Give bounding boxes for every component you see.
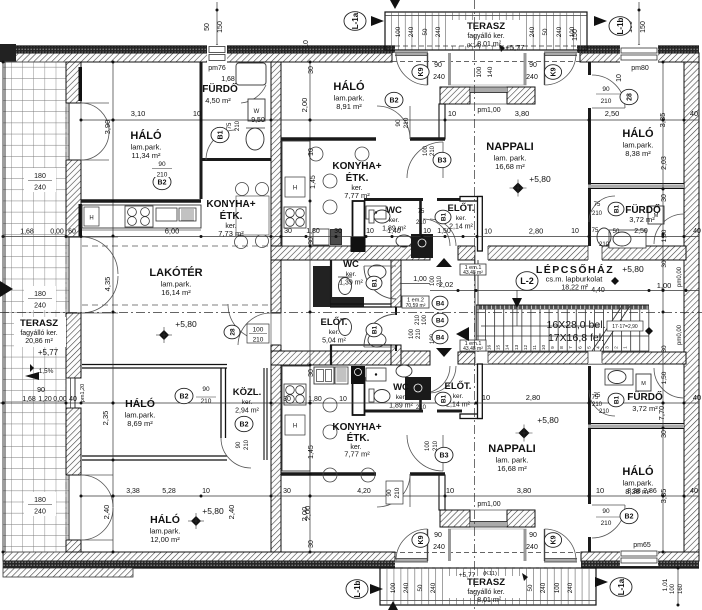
svg-text:90: 90 [434,532,442,539]
svg-text:240: 240 [433,74,445,81]
svg-text:+5,80: +5,80 [202,506,224,516]
svg-text:K9: K9 [418,535,425,544]
svg-text:8,38 m²: 8,38 m² [625,149,651,158]
svg-text:11: 11 [532,345,538,350]
svg-text:L-2: L-2 [520,276,534,286]
svg-text:FÜRDŐ: FÜRDŐ [627,390,663,403]
svg-text:140: 140 [487,66,494,77]
svg-text:43,48 m²: 43,48 m² [463,270,483,276]
svg-text:4,50 m²: 4,50 m² [205,96,231,105]
svg-text:16: 16 [487,345,493,351]
svg-text:WC: WC [393,382,409,393]
svg-text:100: 100 [670,583,676,594]
svg-text:10: 10 [446,486,454,495]
svg-text:NAPPALI: NAPPALI [488,443,535,455]
svg-text:pm1,00: pm1,00 [477,107,500,114]
svg-text:1,50: 1,50 [661,229,668,242]
svg-text:B2: B2 [625,514,634,521]
svg-text:pm1,00: pm1,00 [477,501,500,508]
svg-text:2: 2 [614,346,620,349]
svg-text:ker.: ker. [389,217,400,224]
svg-text:240: 240 [34,303,46,310]
svg-text:50: 50 [417,584,424,591]
svg-text:TERASZ: TERASZ [467,21,505,32]
svg-text:ÉTK.: ÉTK. [346,171,369,184]
svg-text:M: M [641,381,646,387]
svg-text:HÁLÓ: HÁLÓ [130,129,162,142]
svg-text:3,10: 3,10 [131,109,146,118]
svg-text:75: 75 [592,228,599,234]
svg-text:210: 210 [416,405,427,411]
svg-text:B1: B1 [218,130,225,139]
svg-text:8: 8 [559,346,565,349]
svg-text:4,35: 4,35 [103,277,112,292]
svg-text:ker.: ker. [453,393,464,400]
svg-text:B2: B2 [158,180,167,187]
svg-text:8,69 m²: 8,69 m² [127,419,153,428]
svg-text:2,00: 2,00 [300,507,309,522]
svg-text:10: 10 [571,228,579,235]
svg-text:B2: B2 [180,394,189,401]
svg-text:100: 100 [476,66,483,77]
svg-text:1,5%: 1,5% [39,368,54,375]
svg-text:8,91 m²: 8,91 m² [336,102,362,111]
svg-text:10: 10 [303,40,310,48]
svg-text:50: 50 [542,28,549,35]
svg-text:210: 210 [433,440,439,451]
svg-text:pm0,00: pm0,00 [677,324,683,345]
svg-text:1: 1 [623,346,629,349]
svg-text:B4: B4 [436,300,445,307]
svg-text:40: 40 [693,228,701,235]
svg-text:B4: B4 [436,334,445,341]
svg-text:28: 28 [627,93,634,101]
svg-text:2,02: 2,02 [439,280,454,289]
svg-text:0,00: 0,00 [53,396,67,403]
svg-text:100: 100 [409,328,415,339]
svg-text:2,40: 2,40 [227,505,236,520]
svg-text:60: 60 [68,229,76,236]
svg-text:1,68: 1,68 [22,396,36,403]
svg-text:2,00: 2,00 [300,98,309,113]
svg-text:2,94 m²: 2,94 m² [235,408,259,415]
svg-text:210: 210 [157,172,168,179]
svg-text:210: 210 [235,120,241,131]
svg-text:75: 75 [418,209,425,215]
svg-text:210: 210 [244,439,250,450]
svg-text:240: 240 [526,74,538,81]
svg-text:+5,77: +5,77 [38,348,59,357]
svg-text:70,59 m²: 70,59 m² [406,303,426,309]
svg-text:1,68: 1,68 [221,76,235,83]
svg-text:10: 10 [482,393,490,402]
svg-text:15: 15 [496,345,502,351]
svg-text:240: 240 [526,544,538,551]
svg-text:240: 240 [430,582,437,593]
svg-text:NAPPALI: NAPPALI [486,141,533,153]
svg-text:90: 90 [529,62,537,69]
svg-text:12: 12 [523,345,529,351]
svg-text:90: 90 [395,119,402,127]
svg-text:+5,80: +5,80 [622,264,644,274]
svg-text:+5,80: +5,80 [529,174,551,184]
svg-text:160: 160 [678,583,684,594]
svg-text:75: 75 [227,122,233,129]
svg-text:40: 40 [690,486,698,495]
svg-text:210: 210 [430,145,436,156]
svg-text:30: 30 [283,396,291,403]
svg-text:30: 30 [661,430,668,438]
svg-text:4,20: 4,20 [357,488,371,495]
svg-text:FÜRDŐ: FÜRDŐ [202,82,238,95]
svg-text:100: 100 [422,314,428,325]
svg-text:WC: WC [386,205,402,216]
svg-text:2,40: 2,40 [102,505,111,520]
svg-text:1,01: 1,01 [662,578,669,591]
svg-text:6: 6 [577,346,583,349]
svg-text:40: 40 [690,109,698,118]
svg-text:B3: B3 [440,453,449,460]
svg-text:+5,77: +5,77 [506,43,525,52]
svg-text:L-1a: L-1a [617,578,626,595]
svg-text:ELŐT.: ELŐT. [445,380,472,392]
svg-text:pm0,00: pm0,00 [677,266,683,287]
svg-text:2,80: 2,80 [526,393,541,402]
svg-text:B1: B1 [371,325,378,334]
svg-text:1,45: 1,45 [308,445,315,459]
svg-text:210: 210 [592,211,603,217]
svg-text:30: 30 [284,228,292,235]
svg-text:3,80: 3,80 [515,109,530,118]
svg-text:10: 10 [616,74,623,82]
svg-text:90: 90 [236,441,242,448]
svg-text:KONYHA+: KONYHA+ [332,161,381,172]
svg-text:5,28: 5,28 [162,488,176,495]
svg-text:pm65: pm65 [633,542,651,549]
svg-text:ker.: ker. [242,399,253,406]
svg-text:ker.: ker. [396,394,407,401]
svg-text:(K11): (K11) [483,571,497,577]
svg-text:WC: WC [343,259,359,270]
svg-text:LAKÓTÉR: LAKÓTÉR [149,266,202,279]
svg-text:ÉTK.: ÉTK. [220,209,243,222]
svg-text:2,14 m²: 2,14 m² [449,224,473,231]
svg-text:180: 180 [34,497,46,504]
svg-text:12,00 m²: 12,00 m² [150,535,180,544]
svg-text:3,72 m²: 3,72 m² [632,404,658,413]
svg-text:30: 30 [308,369,315,377]
svg-text:H: H [293,424,297,430]
svg-text:3,80: 3,80 [517,486,532,495]
svg-text:40: 40 [69,396,77,403]
svg-text:ker.: ker. [346,271,357,278]
svg-text:2,03: 2,03 [661,156,668,170]
svg-text:90: 90 [158,161,166,168]
svg-text:B3: B3 [438,158,447,165]
svg-text:10: 10 [339,396,347,403]
svg-text:B4: B4 [436,317,445,324]
svg-text:1,45: 1,45 [310,175,317,189]
svg-text:B2: B2 [240,422,249,429]
svg-text:HÁLÓ: HÁLÓ [622,465,654,478]
svg-text:240: 240 [556,26,563,37]
svg-text:pm76: pm76 [208,65,226,72]
svg-text:210: 210 [592,402,603,408]
svg-text:90: 90 [37,387,45,394]
svg-text:ÉTK.: ÉTK. [347,431,370,444]
svg-text:cs.m. lapburkolat: cs.m. lapburkolat [546,275,604,284]
svg-text:30: 30 [661,260,668,268]
svg-text:17·17=2,90: 17·17=2,90 [612,324,638,330]
svg-text:150: 150 [640,21,647,33]
svg-text:pm80: pm80 [631,65,649,72]
svg-text:7,73 m²: 7,73 m² [218,229,244,238]
svg-text:100: 100 [554,582,561,593]
svg-text:1,20: 1,20 [38,396,52,403]
svg-text:90: 90 [202,386,210,393]
svg-text:10: 10 [541,345,547,351]
svg-text:+5,77: +5,77 [459,572,476,579]
svg-text:100: 100 [253,327,264,334]
svg-text:3,72 m²: 3,72 m² [629,215,655,224]
svg-text:H: H [293,186,297,192]
svg-text:30: 30 [308,237,315,245]
svg-text:B2: B2 [390,98,399,105]
svg-text:210: 210 [416,220,427,226]
svg-text:B1: B1 [613,395,620,404]
svg-text:30: 30 [661,345,668,353]
svg-text:10: 10 [448,109,456,118]
svg-text:pm1,20: pm1,20 [80,384,86,402]
svg-text:100: 100 [430,275,436,286]
svg-text:KONYHA+: KONYHA+ [206,199,255,210]
svg-text:B1: B1 [371,278,378,287]
svg-text:210: 210 [201,398,212,405]
svg-text:100: 100 [423,145,429,156]
svg-text:L-1b: L-1b [616,17,625,34]
svg-text:8,38 m²: 8,38 m² [625,487,651,496]
svg-text:TERASZ: TERASZ [20,318,58,329]
svg-text:150: 150 [572,29,579,41]
svg-text:K9: K9 [551,67,558,76]
svg-text:43,48 m²: 43,48 m² [463,346,483,352]
svg-text:240: 240 [34,185,46,192]
svg-text:210: 210 [601,520,612,527]
svg-text:1,89 m²: 1,89 m² [382,226,406,233]
svg-text:10: 10 [202,488,210,495]
svg-text:4: 4 [595,346,601,349]
svg-text:K9: K9 [418,67,425,76]
svg-text:10: 10 [193,109,201,118]
svg-text:90: 90 [602,508,610,515]
svg-text:210: 210 [253,337,264,344]
svg-text:HÁLÓ: HÁLÓ [622,127,654,140]
svg-text:20,86 m²: 20,86 m² [25,338,53,345]
svg-text:3,90: 3,90 [103,120,112,135]
svg-text:2,50: 2,50 [634,228,648,235]
svg-text:210: 210 [394,487,401,498]
svg-text:W: W [254,109,260,115]
svg-text:30: 30 [308,66,315,74]
svg-text:HÁLÓ: HÁLÓ [333,80,365,93]
svg-text:210: 210 [599,409,610,415]
svg-text:K9: K9 [551,535,558,544]
svg-text:1,80: 1,80 [306,228,320,235]
svg-text:fagyálló ker.: fagyálló ker. [20,330,57,337]
svg-text:210: 210 [599,242,610,248]
svg-text:17X16,8 fel.: 17X16,8 fel. [548,332,604,344]
svg-text:7,70: 7,70 [657,406,666,421]
svg-text:ELŐT.: ELŐT. [321,316,348,328]
svg-text:90: 90 [529,532,537,539]
svg-text:9,50: 9,50 [251,117,265,124]
svg-text:B1: B1 [440,394,447,403]
svg-text:100: 100 [390,582,397,593]
svg-text:5,04 m²: 5,04 m² [322,338,346,345]
svg-text:240: 240 [433,544,445,551]
svg-text:90: 90 [602,86,610,93]
svg-text:7,77 m²: 7,77 m² [344,450,370,459]
svg-text:240: 240 [529,26,536,37]
svg-text:210: 210 [416,328,422,339]
svg-text:B1: B1 [613,204,620,213]
svg-text:13: 13 [514,345,520,351]
svg-text:30: 30 [308,540,315,548]
svg-text:210: 210 [415,314,421,325]
svg-text:240: 240 [403,582,410,593]
svg-text:50: 50 [613,229,620,235]
svg-text:240: 240 [540,582,547,593]
svg-text:16X28,0 bel.: 16X28,0 bel. [547,319,606,331]
svg-text:180: 180 [34,173,46,180]
svg-text:240: 240 [435,26,442,37]
svg-text:HÁLÓ: HÁLÓ [125,397,155,410]
svg-text:3,38: 3,38 [126,488,140,495]
svg-text:210: 210 [601,98,612,105]
svg-text:10: 10 [308,148,315,156]
svg-text:210: 210 [403,117,410,128]
svg-text:10: 10 [596,486,604,495]
svg-text:240: 240 [408,26,415,37]
svg-text:ker.: ker. [456,215,467,222]
svg-text:10: 10 [484,229,492,236]
svg-text:1,00: 1,00 [657,281,672,290]
svg-text:HÁLÓ: HÁLÓ [150,513,180,526]
svg-text:B1: B1 [440,212,447,221]
svg-text:1,00: 1,00 [413,276,427,283]
svg-text:30: 30 [283,488,291,495]
svg-text:+5,80: +5,80 [175,319,197,329]
svg-text:14: 14 [505,345,511,351]
svg-text:5: 5 [586,346,592,349]
svg-text:30: 30 [334,228,342,235]
svg-text:ker.: ker. [329,329,340,336]
svg-text:30: 30 [661,194,668,202]
svg-text:16,68 m²: 16,68 m² [495,162,525,171]
svg-text:1,89 m²: 1,89 m² [389,403,413,410]
svg-text:10: 10 [423,228,431,235]
svg-text:16,14 m²: 16,14 m² [161,288,191,297]
svg-text:7: 7 [568,346,574,349]
svg-text:+5,80: +5,80 [537,415,559,425]
svg-text:16,68 m²: 16,68 m² [497,464,527,473]
svg-text:0,00: 0,00 [50,229,64,236]
svg-text:100: 100 [395,26,402,37]
svg-text:9: 9 [550,346,556,349]
svg-text:1,39 m²: 1,39 m² [339,280,363,287]
svg-text:50: 50 [204,23,211,31]
svg-text:150: 150 [217,21,224,33]
svg-text:2,50: 2,50 [605,109,620,118]
svg-text:2,35: 2,35 [101,411,110,426]
svg-text:75: 75 [594,393,601,399]
svg-text:1,50: 1,50 [661,371,668,384]
svg-text:8,01 m: 8,01 m [477,597,499,604]
svg-text:240: 240 [34,509,46,516]
svg-text:240: 240 [567,582,574,593]
svg-text:40: 40 [693,393,701,402]
svg-text:L-1b: L-1b [353,580,362,597]
svg-text:90: 90 [434,62,442,69]
svg-text:3: 3 [604,346,610,349]
svg-text:28: 28 [229,328,236,336]
svg-text:75: 75 [594,202,601,208]
svg-text:ELŐT.: ELŐT. [448,202,475,214]
svg-text:180: 180 [34,291,46,298]
svg-text:100: 100 [425,440,431,451]
svg-text:L-1a: L-1a [351,12,360,29]
svg-text:2,80: 2,80 [529,227,544,236]
svg-text:H: H [89,216,93,222]
svg-text:50: 50 [527,584,534,591]
svg-text:KÖZL.: KÖZL. [233,387,262,398]
svg-text:7,77 m²: 7,77 m² [344,191,370,200]
svg-text:90: 90 [386,489,393,497]
svg-text:KONYHA+: KONYHA+ [332,422,381,433]
svg-text:50: 50 [422,28,429,35]
svg-text:1,68: 1,68 [20,229,34,236]
svg-text:6,00: 6,00 [165,227,180,236]
svg-text:10: 10 [366,228,374,235]
